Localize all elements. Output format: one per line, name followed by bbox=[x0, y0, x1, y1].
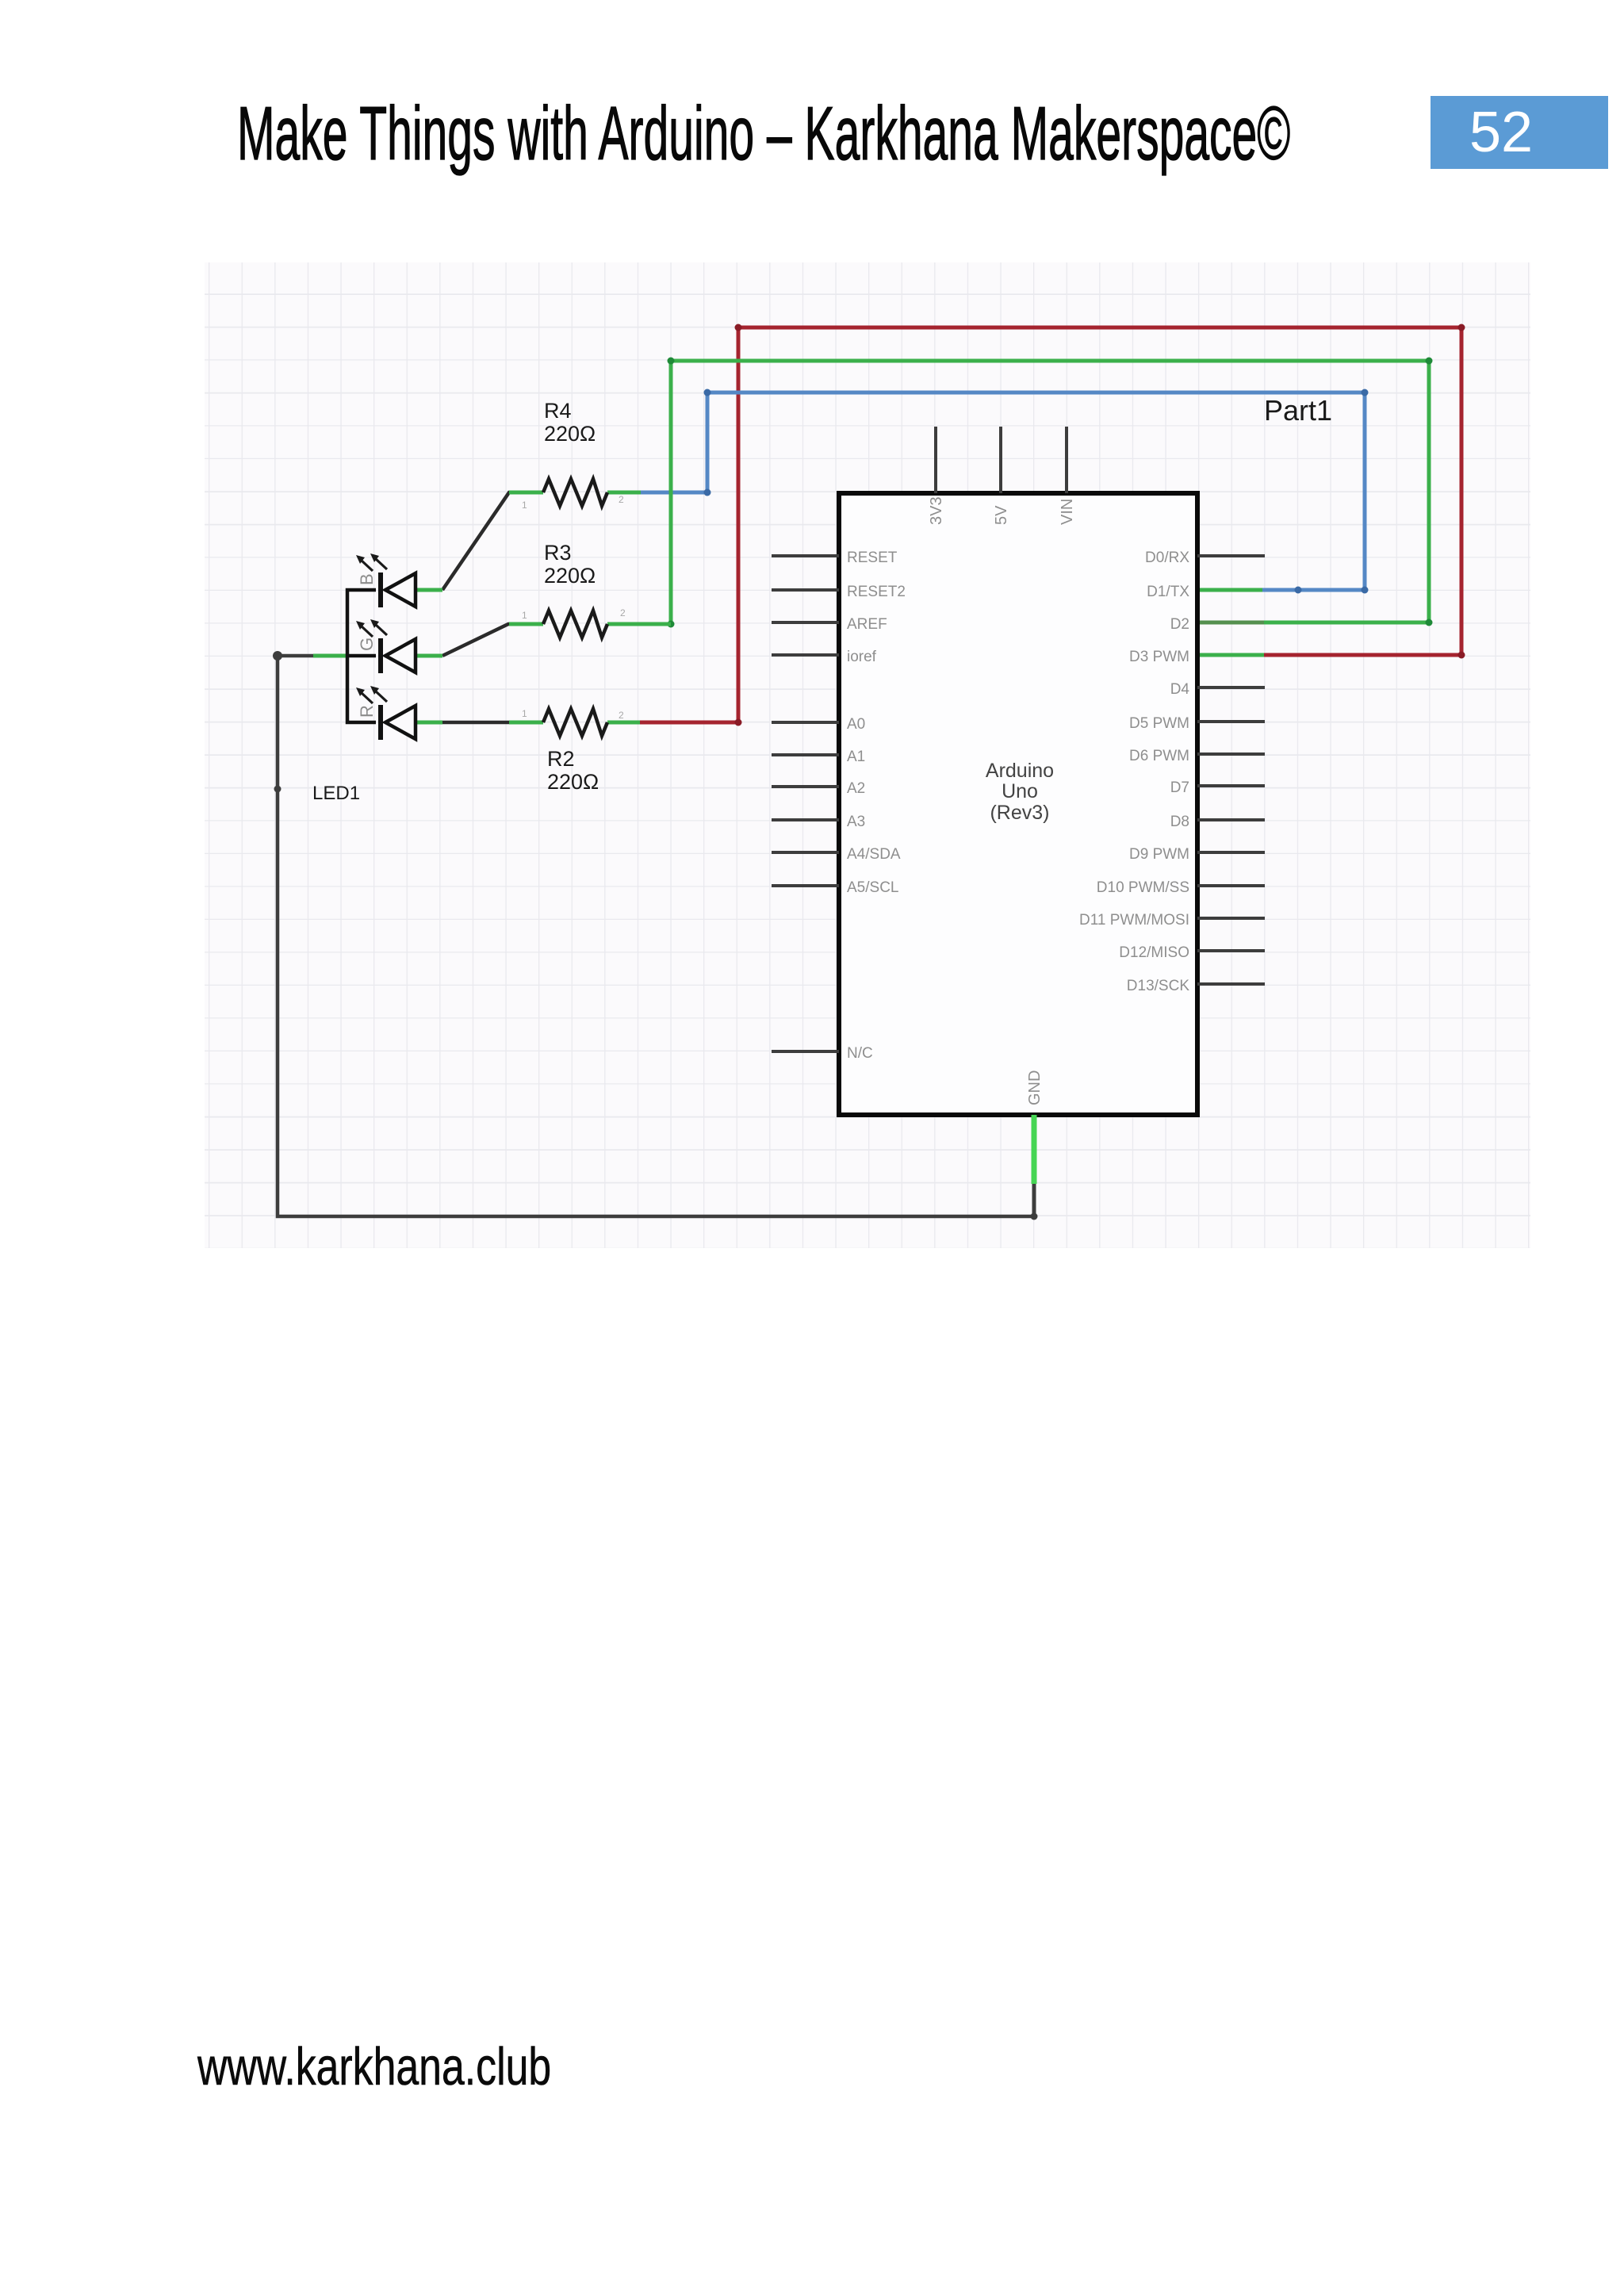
pin D11 PWM/MOSI bbox=[1197, 917, 1265, 920]
svg-text:G: G bbox=[357, 638, 377, 651]
svg-text:Part1: Part1 bbox=[1264, 394, 1332, 427]
svg-text:GND: GND bbox=[1026, 1070, 1044, 1105]
wire B diode to R4 diagonal bbox=[442, 492, 512, 590]
svg-text:D11 PWM/MOSI: D11 PWM/MOSI bbox=[1079, 912, 1189, 929]
wire red R2 to D3 bbox=[640, 327, 1461, 722]
LED B triangle bbox=[385, 573, 416, 607]
pin D0/RX bbox=[1197, 554, 1265, 557]
page number box bbox=[1431, 96, 1608, 169]
svg-text:220Ω: 220Ω bbox=[547, 770, 599, 794]
pin N/C bbox=[772, 1050, 839, 1053]
pin 5V bbox=[999, 427, 1002, 493]
LED G cathode bar bbox=[378, 638, 383, 673]
svg-text:AREF: AREF bbox=[847, 616, 887, 633]
LED R cathode bar bbox=[378, 705, 383, 740]
svg-text:VIN: VIN bbox=[1059, 499, 1076, 525]
LED B emission arrows bbox=[356, 553, 387, 571]
wire G diode to R3 diagonal bbox=[442, 624, 512, 656]
pin A0 bbox=[772, 721, 839, 724]
svg-text:ioref: ioref bbox=[847, 649, 877, 665]
svg-text:D0/RX: D0/RX bbox=[1145, 550, 1189, 566]
pin VIN bbox=[1065, 427, 1068, 493]
resistor R3 bbox=[543, 611, 607, 638]
svg-text:A4/SDA: A4/SDA bbox=[847, 846, 901, 863]
svg-text:D10 PWM/SS: D10 PWM/SS bbox=[1097, 879, 1189, 896]
svg-text:A2: A2 bbox=[847, 780, 865, 797]
LED G emission arrows bbox=[356, 619, 387, 637]
svg-text:2: 2 bbox=[619, 494, 624, 505]
LED1 bracket bbox=[347, 590, 376, 722]
svg-text:A1: A1 bbox=[847, 749, 865, 765]
pin A1 bbox=[772, 753, 839, 756]
LED R emission arrows bbox=[356, 686, 387, 703]
svg-text:A0: A0 bbox=[847, 716, 865, 733]
pin RESET2 bbox=[772, 588, 839, 592]
pin D12/MISO bbox=[1197, 949, 1265, 952]
svg-text:N/C: N/C bbox=[847, 1045, 873, 1062]
pin D4 bbox=[1197, 686, 1265, 689]
pin A5/SCL bbox=[772, 884, 839, 887]
pin A4/SDA bbox=[772, 851, 839, 854]
wire green stubs at resistor pins bbox=[509, 492, 671, 722]
resistor R4 bbox=[543, 479, 607, 506]
svg-text:D9 PWM: D9 PWM bbox=[1129, 846, 1189, 863]
wire black junction to LED1 bbox=[278, 654, 347, 658]
pin D9 PWM bbox=[1197, 851, 1265, 854]
pin D13/SCK bbox=[1197, 982, 1265, 986]
pin 3V3 bbox=[934, 427, 937, 493]
pin ioref bbox=[772, 653, 839, 657]
svg-text:RESET: RESET bbox=[847, 550, 898, 566]
svg-text:1: 1 bbox=[522, 708, 527, 719]
footer url bbox=[197, 2036, 551, 2097]
svg-text:2: 2 bbox=[620, 607, 626, 618]
wire D2 stub muted bbox=[1197, 621, 1264, 625]
wire black LED common to GND bbox=[278, 656, 1034, 1216]
svg-text:D2: D2 bbox=[1170, 616, 1189, 633]
pin D8 bbox=[1197, 818, 1265, 821]
resistor pin numbers bbox=[522, 494, 626, 721]
pin D5 PWM bbox=[1197, 720, 1265, 723]
label Arduino Uno Rev3 bbox=[986, 760, 1054, 824]
wire R diode to R2 bbox=[442, 721, 509, 725]
pin GND bbox=[1032, 1115, 1037, 1184]
svg-text:D13/SCK: D13/SCK bbox=[1127, 978, 1190, 994]
pin AREF bbox=[772, 621, 839, 624]
wire green stubs at LED pins bbox=[313, 590, 442, 722]
svg-text:220Ω: 220Ω bbox=[544, 564, 596, 588]
LED G triangle bbox=[385, 639, 416, 672]
node blue junctions bbox=[704, 389, 1369, 594]
LED R triangle bbox=[385, 706, 416, 739]
svg-text:D3 PWM: D3 PWM bbox=[1129, 649, 1189, 665]
node red junctions bbox=[735, 324, 1465, 726]
pin A2 bbox=[772, 785, 839, 788]
wire green stubs at arduino pins bbox=[1197, 590, 1264, 655]
pin D7 bbox=[1197, 784, 1265, 787]
wire blue R4 to D1/TX bbox=[641, 393, 1365, 590]
resistor R2 bbox=[543, 709, 607, 736]
svg-text:D5 PWM: D5 PWM bbox=[1129, 715, 1189, 732]
svg-text:D7: D7 bbox=[1170, 779, 1189, 796]
pin D6 PWM bbox=[1197, 752, 1265, 756]
svg-text:Uno: Uno bbox=[1002, 780, 1038, 802]
node GND junction bbox=[1031, 1213, 1038, 1220]
svg-text:LED1: LED1 bbox=[312, 783, 360, 804]
LED B cathode bar bbox=[378, 572, 383, 607]
pin RESET bbox=[772, 554, 839, 557]
op-amp U1 Arduino Uno box bbox=[839, 493, 1197, 1115]
svg-text:A3: A3 bbox=[847, 814, 865, 830]
node green junctions bbox=[668, 358, 1433, 628]
svg-text:220Ω: 220Ω bbox=[544, 422, 596, 446]
svg-text:D1/TX: D1/TX bbox=[1147, 584, 1189, 600]
header title bbox=[237, 90, 1290, 178]
svg-text:D8: D8 bbox=[1170, 814, 1189, 830]
svg-text:R3: R3 bbox=[544, 541, 572, 565]
svg-text:(Rev3): (Rev3) bbox=[990, 802, 1049, 824]
node black bendpoint bbox=[274, 786, 282, 793]
svg-text:R4: R4 bbox=[544, 399, 572, 423]
pin A3 bbox=[772, 818, 839, 821]
svg-text:D4: D4 bbox=[1170, 681, 1190, 698]
svg-text:D12/MISO: D12/MISO bbox=[1119, 944, 1189, 961]
svg-text:2: 2 bbox=[619, 710, 624, 721]
node black junction bbox=[273, 651, 282, 661]
svg-text:1: 1 bbox=[522, 610, 527, 621]
svg-text:A5/SCL: A5/SCL bbox=[847, 879, 898, 896]
svg-text:3V3: 3V3 bbox=[928, 496, 945, 525]
svg-text:RESET2: RESET2 bbox=[847, 584, 906, 600]
wire green R3 to D2 bbox=[671, 361, 1429, 624]
svg-text:R2: R2 bbox=[547, 747, 575, 771]
svg-text:5V: 5V bbox=[993, 505, 1010, 525]
svg-text:1: 1 bbox=[522, 500, 527, 511]
svg-text:D6 PWM: D6 PWM bbox=[1129, 748, 1189, 764]
svg-text:Arduino: Arduino bbox=[986, 760, 1054, 782]
svg-text:R: R bbox=[357, 705, 377, 718]
svg-text:B: B bbox=[357, 573, 377, 585]
pin D10 PWM/SS bbox=[1197, 884, 1265, 887]
